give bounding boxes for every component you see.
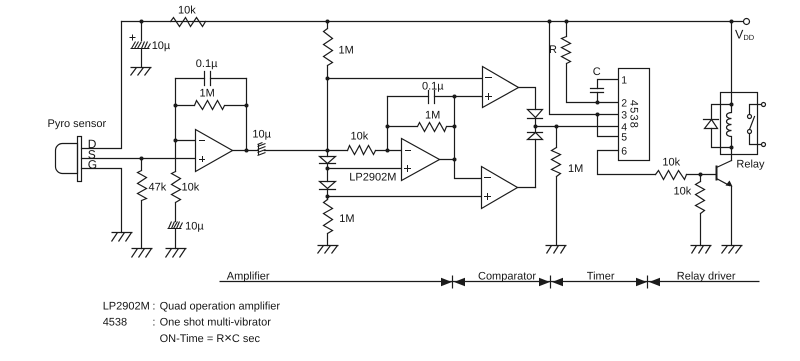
- ground (1M diode bias): [318, 246, 339, 254]
- svg-text:1M: 1M: [200, 87, 215, 99]
- junction dot relay coil top: [730, 103, 734, 107]
- pyro sensor can: [56, 144, 78, 174]
- capacitor C4 0.1u plates: [429, 91, 435, 104]
- wire D3 to junction: [535, 119, 537, 127]
- op-amp U2 LP2902M: [402, 139, 440, 181]
- resistor 1M (from rail to comparator bias): [324, 22, 333, 79]
- resistor 1M (timer input pulldown): [552, 127, 561, 246]
- capacitor 10u electrolytic (series coupling): [258, 143, 266, 156]
- svg-text:One shot multi-vibrator: One shot multi-vibrator: [160, 317, 272, 329]
- wire 4538 pin6 to base resistor: [598, 151, 656, 175]
- svg-text:1: 1: [621, 74, 627, 86]
- junction dot main row / U2 feedback: [386, 149, 390, 153]
- wire junction to diode D4: [535, 127, 537, 133]
- diode D2: [320, 182, 336, 190]
- junction dot OR diodes: [534, 125, 538, 129]
- svg-text:10k: 10k: [662, 157, 680, 169]
- wire D2 to 1M pulldown: [327, 190, 329, 200]
- resistor 1M (U1 feedback): [176, 101, 247, 110]
- svg-text:2: 2: [621, 98, 627, 110]
- diode D3: [528, 110, 543, 119]
- svg-text:10µ: 10µ: [185, 220, 204, 232]
- junction dot diode stack D1-D2: [326, 167, 330, 171]
- wire U2 plus input row: [328, 168, 402, 170]
- junction dot U2 feedback 1M left: [386, 125, 390, 129]
- comparator U3: [483, 67, 519, 108]
- comparator U4: [482, 167, 518, 209]
- diode D1: [320, 157, 336, 164]
- wire D1 to D2: [327, 164, 329, 182]
- svg-text:10k: 10k: [182, 182, 200, 194]
- junction dot top rail / R: [565, 20, 569, 24]
- section arrow left (comparator): [454, 278, 465, 286]
- capacitor C1 0.1u plates: [205, 72, 211, 86]
- svg-text:1M: 1M: [339, 44, 354, 56]
- ground (47k): [132, 249, 153, 258]
- wire comparator U4 plus input row: [328, 196, 482, 198]
- wire 10u cap C2 to ground: [175, 229, 177, 249]
- wire base resistor to transistor Q1: [687, 174, 717, 176]
- junction dot diode stack D2-1M: [326, 195, 330, 199]
- wire feedback left vertical: [175, 79, 177, 172]
- svg-text:0.1µ: 0.1µ: [196, 58, 218, 70]
- junction dot top rail / 10u cap: [140, 20, 144, 24]
- junction dot 1M comp1 bias: [326, 77, 330, 81]
- svg-text:R: R: [549, 44, 557, 56]
- wire VDD drop to 4538 pin 3: [550, 22, 619, 115]
- wire U2 feedback left vertical: [387, 97, 389, 151]
- svg-text:Comparator: Comparator: [478, 270, 536, 282]
- svg-text:ON-Time = R×C sec: ON-Time = R×C sec: [160, 330, 261, 345]
- junction dot U2 output: [453, 158, 457, 162]
- relay switch arm: [750, 117, 755, 130]
- relay terminal circle bottom: [762, 143, 766, 147]
- VDD terminal circle: [744, 19, 750, 25]
- junction dot U1 feedback right 1M row: [245, 104, 249, 108]
- svg-text:6: 6: [621, 146, 627, 158]
- section tick amplifier/comparator: [452, 276, 454, 289]
- wire pin3 to pin5 link: [598, 115, 619, 137]
- junction dot U2 feedback 1M right: [453, 125, 457, 129]
- junction dot top rail / 1M: [326, 20, 330, 24]
- diode D4: [528, 133, 543, 140]
- svg-text:10k: 10k: [674, 186, 692, 198]
- relay contact circle top: [748, 115, 752, 119]
- svg-text:1M: 1M: [425, 110, 440, 122]
- svg-text:47k: 47k: [149, 182, 167, 194]
- wire Q1 collector to relay: [731, 148, 733, 161]
- wire OR junction row to 4538 pin 4: [536, 126, 619, 128]
- capacitor 10u electrolytic (top left): [131, 42, 151, 49]
- relay contact bottom: [750, 134, 761, 145]
- svg-text:10µ: 10µ: [252, 129, 271, 141]
- section tick comparator/timer: [550, 276, 552, 289]
- resistor 10k (base drive): [656, 171, 687, 180]
- wire coupling cap to comparator network: [265, 150, 402, 152]
- wire U1 output to 10u coupling cap: [233, 150, 258, 152]
- svg-text:LP2902M: LP2902M: [349, 172, 396, 184]
- svg-text:Quad operation amplifier: Quad operation amplifier: [160, 301, 281, 313]
- svg-text:10k: 10k: [178, 5, 196, 17]
- section arrow left (timer): [552, 278, 563, 286]
- svg-text:3: 3: [621, 110, 627, 122]
- svg-text:4538: 4538: [103, 317, 127, 329]
- svg-text::: :: [152, 317, 155, 329]
- junction dot U1 minus input: [174, 139, 178, 143]
- junction dot pin3 row / pin5 link: [596, 113, 600, 117]
- junction dot U1 feedback left 1M row: [174, 104, 178, 108]
- resistor 1M (U2 feedback): [388, 123, 455, 132]
- svg-text:10k: 10k: [351, 131, 369, 143]
- resistor 10k (series, main row): [348, 146, 376, 155]
- junction dot U1 output: [245, 149, 249, 153]
- svg-text:G: G: [88, 157, 97, 171]
- junction dot relay coil bottom: [730, 146, 734, 150]
- svg-text:C: C: [593, 66, 601, 78]
- resistor 10k (to 10u cap): [172, 172, 181, 222]
- junction dot pin4 row / 1M: [555, 125, 559, 129]
- wire U4 output: [518, 187, 536, 189]
- resistor 10k (base pulldown): [696, 175, 705, 246]
- wire 10u cap branch upper: [141, 22, 143, 41]
- section arrow left (relay driver): [649, 278, 660, 286]
- wire D4 to U4 output: [535, 140, 537, 188]
- svg-text::: :: [152, 301, 155, 313]
- junction dot U2 feedback top: [453, 95, 457, 99]
- resistor 10k (top rail): [171, 18, 206, 27]
- op-amp U1: [196, 130, 233, 172]
- svg-text:Amplifier: Amplifier: [227, 270, 270, 282]
- svg-text:Pyro sensor: Pyro sensor: [48, 118, 107, 130]
- section marker line: [220, 281, 760, 283]
- wire VDD drop to relay coil: [731, 22, 733, 105]
- wire U2 feedback right vertical: [454, 97, 456, 160]
- wire cap C to pin2 row: [597, 93, 599, 103]
- svg-text:4538: 4538: [628, 100, 640, 129]
- IC 4538 box: [619, 69, 650, 161]
- section arrow right (amplifier): [441, 278, 452, 286]
- svg-text:Timer: Timer: [587, 270, 615, 282]
- wire flyback diode top branch: [712, 105, 732, 120]
- svg-text:Relay driver: Relay driver: [677, 270, 736, 282]
- transistor Q1: [716, 167, 718, 180]
- svg-text:0.1µ: 0.1µ: [422, 81, 444, 93]
- svg-text:VDD: VDD: [735, 27, 755, 42]
- relay contact circle bottom: [748, 130, 752, 134]
- junction dot top rail / pin3 drop: [548, 20, 552, 24]
- svg-text:1M: 1M: [568, 163, 583, 175]
- wire bias vertical to diode stack: [327, 79, 329, 157]
- svg-text:LP2902M: LP2902M: [103, 301, 150, 313]
- diode D5 flyback: [704, 120, 719, 129]
- svg-text:Relay: Relay: [736, 159, 765, 171]
- wire U1 minus input row: [176, 140, 196, 142]
- relay contact top: [750, 105, 761, 115]
- resistor R (timing): [562, 22, 619, 103]
- junction dot main row / bias vertical: [326, 149, 330, 153]
- wire flyback diode bottom branch: [712, 129, 732, 148]
- ground (pyro G pin): [112, 233, 133, 242]
- wire G pin down to ground: [82, 169, 122, 233]
- resistor 47k: [138, 159, 147, 249]
- ground (1M timer input): [546, 246, 567, 254]
- ground (Q1 emitter): [722, 246, 743, 254]
- relay coil: [727, 105, 732, 148]
- junction dot pin2 row / cap C: [596, 101, 600, 105]
- ground (10u cap top left): [131, 68, 152, 76]
- wire comparator U3 minus input row: [328, 78, 483, 80]
- svg-text:1M: 1M: [339, 213, 354, 225]
- wire U3 output to OR diode D3: [519, 88, 536, 110]
- junction dot S row / 47k: [140, 157, 144, 161]
- wire top rail: [122, 21, 744, 23]
- wire 10u cap branch lower to ground: [141, 49, 143, 68]
- resistor 1M (diode bias pulldown): [324, 200, 333, 246]
- ground (10k pulldown): [691, 246, 712, 254]
- wire U2 feedback top row with 0.1u cap C4: [388, 96, 483, 98]
- relay K1 box: [721, 93, 758, 155]
- wire feedback right vertical: [246, 79, 248, 151]
- wire S row to op-amp U1 + input: [82, 158, 196, 160]
- pyro sensor flange: [78, 137, 82, 182]
- wire feedback loop top row with 0.1u cap C1: [176, 78, 247, 80]
- wire 4538 pin1 to cap C: [598, 80, 619, 89]
- junction dot base row / pulldown: [699, 173, 703, 177]
- section arrow right (comparator): [539, 278, 550, 286]
- wire Q1 emitter to ground: [731, 187, 733, 246]
- wire left drop to D pin: [82, 22, 122, 149]
- section tick timer/relay driver: [647, 276, 649, 289]
- section arrow right (timer): [636, 278, 647, 286]
- svg-text:5: 5: [621, 132, 627, 144]
- wire U2 output: [440, 159, 455, 161]
- svg-text:10µ: 10µ: [152, 40, 171, 52]
- wire U2 output down to U4 minus input: [455, 160, 482, 179]
- junction dot top rail / relay: [730, 20, 734, 24]
- transistor Q1 emitter arrow: [726, 181, 733, 187]
- ground (10k 10u): [166, 249, 187, 258]
- capacitor C (timing) plates: [591, 89, 604, 93]
- capacitor 10u electrolytic (10k leg): [168, 222, 183, 229]
- relay terminal circle top: [762, 103, 766, 107]
